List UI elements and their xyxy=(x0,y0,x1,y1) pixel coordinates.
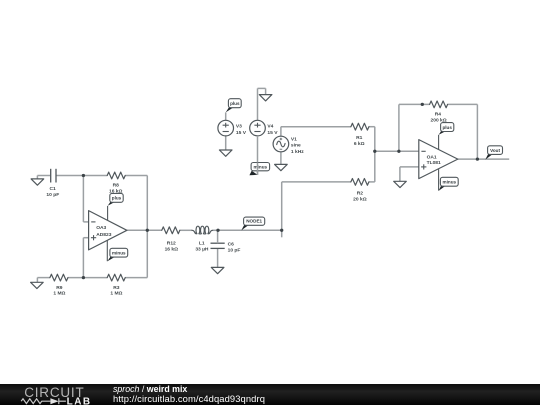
svg-text:plus: plus xyxy=(112,196,122,201)
label R2 xyxy=(353,191,367,203)
label V1 xyxy=(291,137,304,155)
svg-text:R8: R8 xyxy=(113,183,120,189)
wire R1 row left xyxy=(281,126,351,128)
wire R4 row right xyxy=(448,103,478,105)
svg-text:sine: sine xyxy=(291,143,301,149)
svg-text:NODE1: NODE1 xyxy=(246,219,262,224)
svg-text:10 pF: 10 pF xyxy=(46,192,59,198)
resistor R8 xyxy=(107,172,125,179)
capacitor C6 xyxy=(211,230,225,248)
svg-text:minus: minus xyxy=(254,165,268,170)
wire OA1 noninverting to ground xyxy=(400,167,419,181)
svg-text:TL081: TL081 xyxy=(427,160,441,166)
svg-text:Vout: Vout xyxy=(490,148,500,153)
wire OA1 output xyxy=(458,158,509,160)
svg-text:R4: R4 xyxy=(435,111,442,117)
svg-text:V1: V1 xyxy=(291,137,297,143)
wire V1 top riser xyxy=(280,127,282,137)
CircuitLab logo xyxy=(0,384,100,405)
node OA1 inverting/feedback xyxy=(397,150,400,153)
wire OA3 noninverting input stub xyxy=(83,237,88,239)
ground at C1 xyxy=(31,176,44,186)
wire feedback right column OA1 xyxy=(476,104,478,159)
wire feedback left column OA1 xyxy=(398,104,400,151)
resistor R9 xyxy=(50,274,68,281)
resistor R3 xyxy=(107,274,125,281)
ground V3 xyxy=(219,136,232,156)
svg-text:minus: minus xyxy=(443,180,457,185)
svg-text:V4: V4 xyxy=(267,124,273,130)
flag minus OA1 xyxy=(439,177,458,190)
label OA1 xyxy=(427,155,441,166)
svg-text:1 MΩ: 1 MΩ xyxy=(110,291,122,297)
svg-text:C6: C6 xyxy=(228,242,235,248)
node R1/R2 join xyxy=(373,150,376,153)
label R8 xyxy=(109,183,123,195)
flag plus OA3 xyxy=(108,193,124,205)
svg-text:1 MΩ: 1 MΩ xyxy=(53,291,65,297)
wire R3 to feedback column xyxy=(125,277,147,279)
svg-text:15 V: 15 V xyxy=(267,130,278,136)
svg-text:6 kΩ: 6 kΩ xyxy=(354,141,365,147)
svg-text:OA3: OA3 xyxy=(96,225,106,231)
resistor R4 xyxy=(430,101,448,108)
svg-text:plus: plus xyxy=(442,125,452,130)
svg-text:R3: R3 xyxy=(113,285,120,291)
wire R9 to node xyxy=(68,277,107,279)
wire noninverting input column OA3 xyxy=(82,238,84,278)
label R12 xyxy=(165,241,179,253)
svg-text:V3: V3 xyxy=(236,124,242,130)
svg-text:R9: R9 xyxy=(56,285,63,291)
svg-text:20 kΩ: 20 kΩ xyxy=(353,196,367,202)
label V4 xyxy=(267,124,278,136)
svg-text:AD823: AD823 xyxy=(96,232,112,238)
label R1 xyxy=(354,135,365,147)
wire R12 to L1 xyxy=(180,229,192,231)
wire OA3 inverting input stub xyxy=(83,221,88,223)
svg-text:33 µH: 33 µH xyxy=(195,246,209,252)
node NODE1/riser xyxy=(280,229,283,232)
ground V4 (rotated, above) xyxy=(258,88,272,120)
label L1 xyxy=(195,241,209,253)
svg-text:LAB: LAB xyxy=(67,396,92,405)
wire R2 right corner up xyxy=(369,151,375,182)
label R3 xyxy=(110,285,122,297)
wire top row ground to C1 xyxy=(37,175,50,177)
ground OA1 noninverting xyxy=(394,181,407,187)
wire feedback right column xyxy=(146,176,148,278)
svg-text:OA1: OA1 xyxy=(427,155,437,161)
label C1 xyxy=(46,186,59,198)
wire L1 to C6 node xyxy=(213,229,218,231)
label R9 xyxy=(53,285,65,297)
ground V1 xyxy=(275,152,288,171)
wire C1 to R8 xyxy=(56,175,107,177)
wire summing node to OA1 inverting input xyxy=(375,150,419,152)
node R4 left pin xyxy=(421,103,424,106)
flag Vout xyxy=(485,146,502,160)
wire R4 row left xyxy=(399,103,430,105)
svg-text:R2: R2 xyxy=(357,191,364,197)
flag minus V4 xyxy=(249,163,269,176)
wire R2 row left xyxy=(282,181,351,183)
voltage source V4 xyxy=(250,120,266,175)
wire OA3 output to R12 xyxy=(127,229,162,231)
wire inverting input column OA3 xyxy=(82,176,84,222)
wire NODE1 row xyxy=(218,229,282,231)
svg-text:C1: C1 xyxy=(49,186,56,192)
node L1/C6/NODE1 xyxy=(216,229,219,232)
capacitor C1 xyxy=(51,169,56,183)
node C1/R8/inverting xyxy=(82,174,85,177)
ground C6 xyxy=(211,249,224,274)
label R4 xyxy=(431,111,447,123)
flag plus V3 xyxy=(226,99,242,113)
svg-text:R1: R1 xyxy=(356,135,363,141)
op-amp OA3 xyxy=(89,206,127,261)
wire R1 right corner down xyxy=(369,127,375,152)
svg-text:R12: R12 xyxy=(167,241,176,247)
node OA1 output/feedback xyxy=(476,157,479,160)
svg-text:16 kΩ: 16 kΩ xyxy=(165,246,179,252)
label V3 xyxy=(236,124,247,136)
svg-text:10 pF: 10 pF xyxy=(228,247,241,253)
node R9/R3/noninverting xyxy=(82,276,85,279)
voltage source V3 xyxy=(218,112,234,136)
svg-text:L1: L1 xyxy=(199,241,205,247)
resistor R2 xyxy=(351,179,369,186)
svg-text:1 kHz: 1 kHz xyxy=(291,149,304,155)
inductor L1 xyxy=(192,226,213,234)
wire riser to R2 row xyxy=(281,182,283,237)
svg-text:minus: minus xyxy=(112,251,126,256)
flag plus OA1 xyxy=(439,123,454,135)
op-amp OA1 xyxy=(419,135,458,191)
wire R8 to feedback corner xyxy=(125,175,147,177)
flag minus OA3 xyxy=(107,248,127,261)
label OA3 xyxy=(96,225,112,238)
resistor R1 xyxy=(351,123,369,130)
resistor R12 xyxy=(162,227,180,234)
flag NODE1 xyxy=(241,217,264,230)
svg-text:15 V: 15 V xyxy=(236,130,247,136)
footer bar xyxy=(0,384,540,405)
wire ground to R9 xyxy=(37,277,50,279)
node OA3 output/feedback xyxy=(146,229,149,232)
ground at R9 xyxy=(31,278,44,289)
voltage source V1 (sine) xyxy=(273,136,289,152)
label C6 xyxy=(228,242,241,254)
svg-text:plus: plus xyxy=(230,101,240,106)
